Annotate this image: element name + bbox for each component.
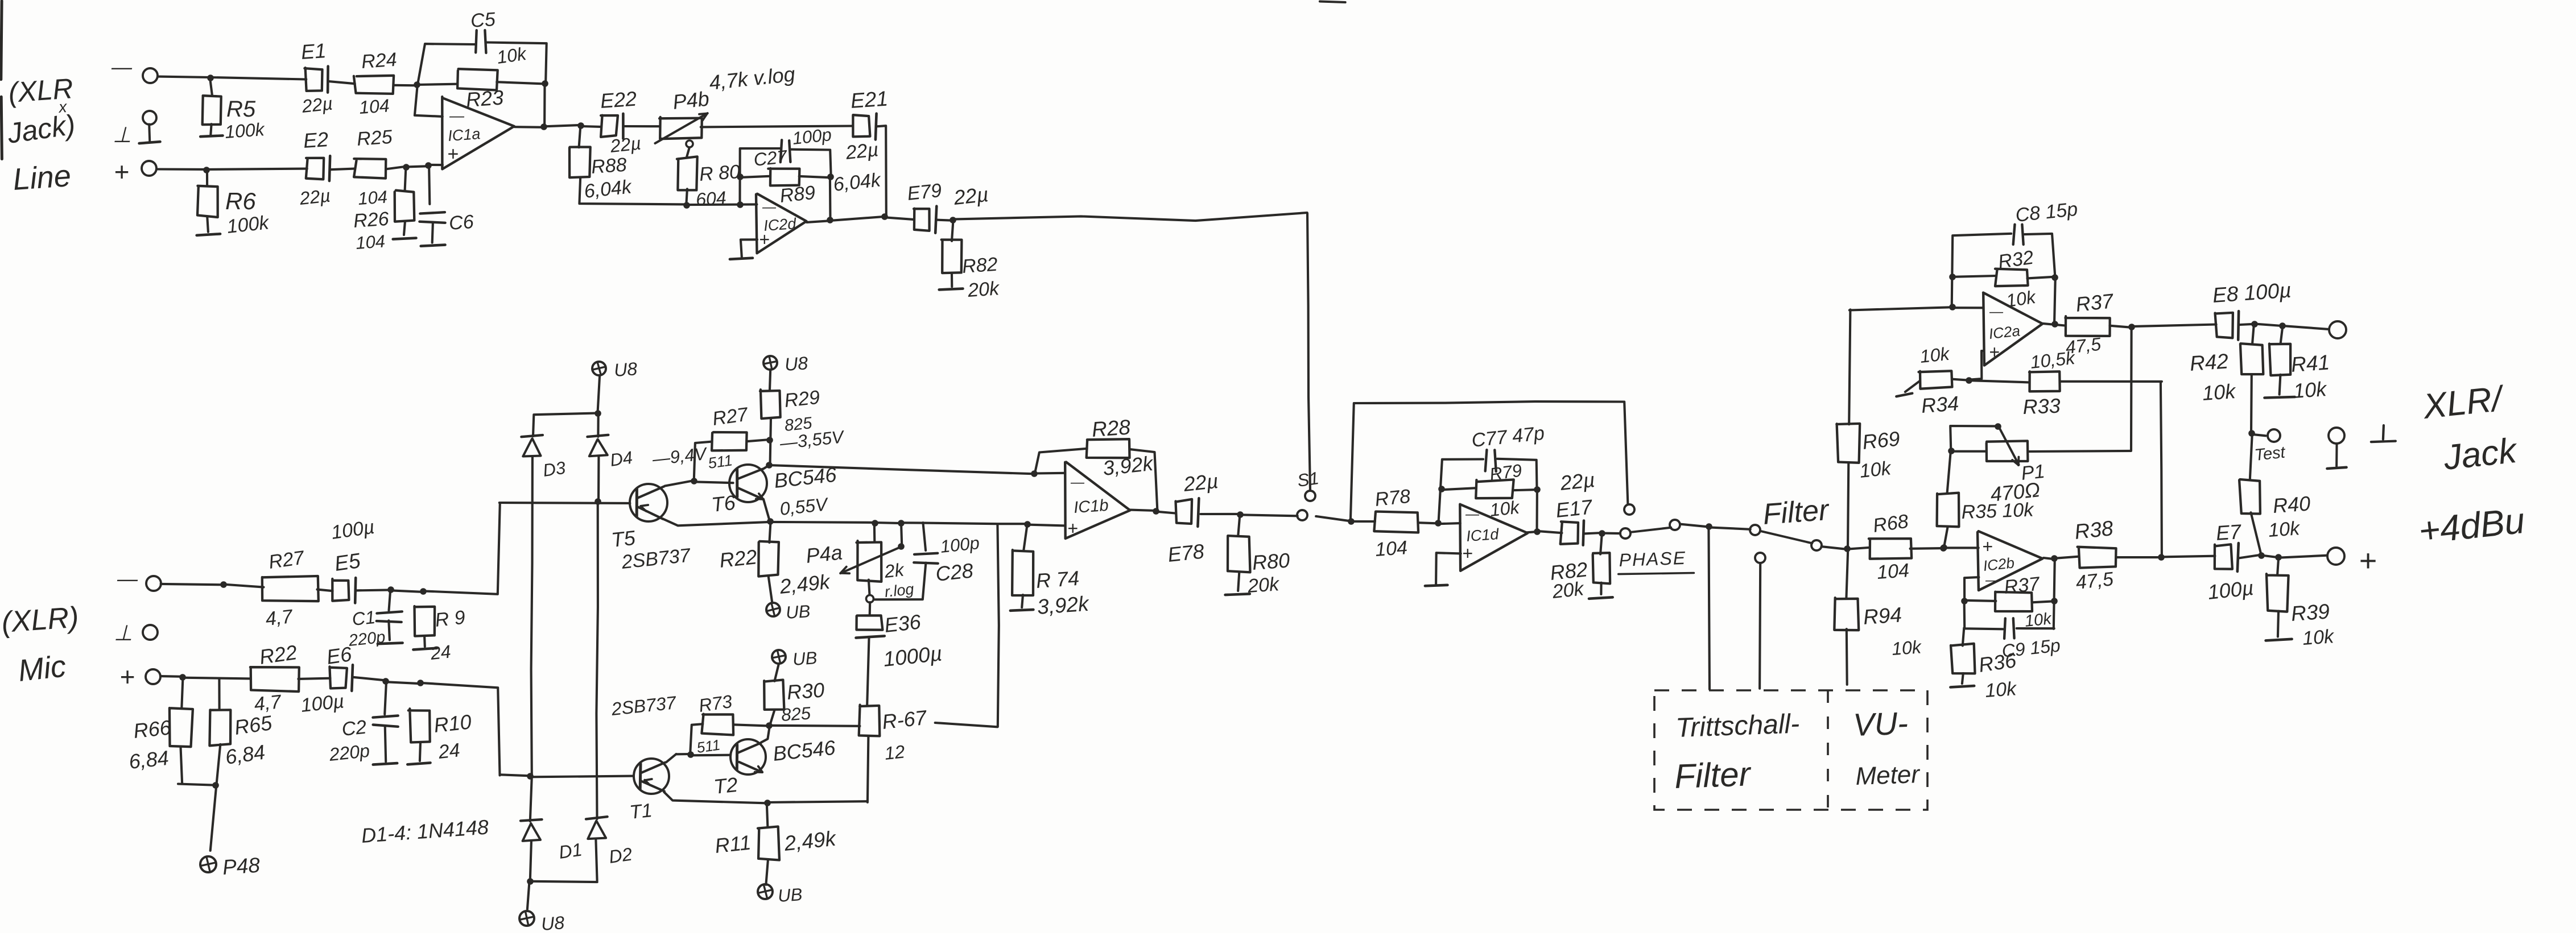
- transistor T1: [634, 759, 669, 794]
- capacitor E1: [304, 68, 322, 91]
- svg-text:E36: E36: [884, 610, 923, 637]
- diode D4: [587, 435, 608, 437]
- svg-text:+: +: [2359, 544, 2377, 578]
- transistor T6: [729, 465, 767, 502]
- resistor R82: [952, 220, 953, 241]
- resistor R36: [1963, 628, 1964, 645]
- resistor R22 emitter: [769, 522, 770, 542]
- transistor T2: [730, 739, 766, 775]
- resistor R28: [1031, 470, 1038, 477]
- svg-text:100µ: 100µ: [2207, 576, 2255, 604]
- op-amp IC2d: [756, 194, 807, 254]
- power UB bottom: [519, 911, 534, 926]
- svg-text:R42: R42: [2189, 349, 2230, 375]
- svg-text:+: +: [1462, 543, 1473, 564]
- resistor R34: [1919, 371, 1952, 388]
- svg-text:R5: R5: [226, 97, 256, 122]
- resistor R35: [1947, 452, 1951, 492]
- svg-text:R 80: R 80: [699, 161, 741, 185]
- svg-text:E21: E21: [850, 86, 889, 112]
- resistor R9: [414, 606, 435, 636]
- svg-text:IC1a: IC1a: [447, 125, 481, 144]
- svg-text:R 9: R 9: [434, 607, 467, 631]
- svg-text:3,92k: 3,92k: [1037, 592, 1091, 619]
- svg-text:—: —: [1070, 475, 1085, 490]
- svg-text:+: +: [119, 662, 135, 691]
- svg-text:IC2b: IC2b: [1982, 554, 2015, 574]
- svg-text:C27: C27: [753, 146, 789, 170]
- svg-text:UB: UB: [777, 884, 803, 906]
- svg-text:C5: C5: [470, 9, 496, 32]
- resistor R32: [1953, 276, 1996, 277]
- svg-text:R6: R6: [225, 188, 256, 214]
- svg-text:—: —: [449, 107, 465, 124]
- svg-text:100k: 100k: [226, 212, 271, 238]
- svg-text:+: +: [759, 229, 770, 250]
- resistor R11: [767, 803, 768, 828]
- svg-text:4,7: 4,7: [253, 691, 283, 715]
- resistor R40: [2239, 479, 2260, 514]
- svg-text:825: 825: [781, 703, 812, 725]
- svg-text:R39: R39: [2290, 599, 2331, 626]
- capacitor C27 and resistor R89: [740, 148, 781, 205]
- op-amp IC2a: [1983, 293, 2042, 366]
- svg-text:10k: 10k: [1859, 457, 1893, 482]
- svg-text:C6: C6: [448, 211, 474, 234]
- svg-text:R80: R80: [1252, 548, 1291, 574]
- wire IC1a output: [544, 125, 581, 126]
- diode D2: [586, 817, 608, 819]
- transistor T5: [630, 484, 667, 521]
- wire T5 base row: [499, 502, 630, 504]
- svg-text:R23: R23: [465, 85, 505, 111]
- capacitor E6: [329, 666, 347, 688]
- svg-text:R37: R37: [2003, 573, 2041, 598]
- svg-text:R 74: R 74: [1035, 566, 1080, 593]
- capacitor E79: [914, 209, 930, 231]
- op-amp IC2b: [1978, 531, 2042, 590]
- svg-text:R40: R40: [2272, 491, 2311, 517]
- svg-text:R26: R26: [353, 208, 390, 232]
- svg-text:22µ: 22µ: [300, 93, 333, 117]
- capacitor C2: [385, 681, 386, 714]
- svg-text:10k: 10k: [2268, 517, 2301, 541]
- svg-text:100µ: 100µ: [300, 690, 345, 717]
- svg-text:R35 10k: R35 10k: [1961, 499, 2035, 523]
- svg-text:R34: R34: [1921, 391, 1960, 417]
- svg-text:4,7: 4,7: [265, 606, 294, 630]
- svg-text:104: 104: [1374, 537, 1408, 561]
- svg-text:T5: T5: [610, 526, 637, 552]
- svg-text:100k: 100k: [224, 119, 266, 142]
- terminal Line inputs: [143, 68, 158, 83]
- svg-text:UB: UB: [785, 601, 811, 623]
- potentiometer P1: [2130, 326, 2133, 451]
- resistor R30 and power UB: [772, 650, 786, 664]
- svg-text:R29: R29: [783, 387, 821, 412]
- capacitor C8: [1952, 234, 2012, 308]
- resistor R68: [1847, 548, 1868, 549]
- svg-text:U8: U8: [540, 912, 565, 933]
- svg-text:R25: R25: [356, 126, 393, 150]
- terminal jack and ground: [2329, 428, 2344, 444]
- resistor R25: [354, 159, 386, 179]
- svg-text:C2: C2: [341, 717, 368, 740]
- svg-text:R24: R24: [361, 49, 398, 73]
- svg-text:Test: Test: [2253, 443, 2287, 465]
- wire Mic minus row: [161, 584, 224, 585]
- svg-text:—: —: [762, 200, 777, 215]
- wire R67 to emitter row: [935, 723, 998, 727]
- resistor R22: [250, 667, 299, 691]
- resistor R27 511: [712, 432, 747, 450]
- svg-text:604: 604: [695, 187, 727, 210]
- op-amp IC1a: [442, 97, 514, 169]
- op-amp IC1b: [1065, 462, 1130, 539]
- svg-text:511: 511: [696, 736, 721, 756]
- svg-text:+: +: [447, 143, 459, 165]
- svg-text:R69: R69: [1861, 426, 1901, 454]
- wire output: [1527, 532, 1537, 532]
- resistor R41: [2281, 325, 2283, 343]
- svg-text:R28: R28: [1091, 415, 1132, 441]
- svg-text:C1: C1: [351, 607, 376, 629]
- svg-text:R78: R78: [1374, 486, 1411, 511]
- resistor R82: [1600, 533, 1602, 554]
- resistor R29 and power UB: [763, 356, 777, 370]
- resistor R23: [416, 84, 457, 85]
- diode D1: [521, 819, 542, 821]
- svg-text:—: —: [1465, 507, 1480, 522]
- svg-text:+: +: [114, 157, 129, 187]
- svg-text:—: —: [1985, 573, 2000, 588]
- resistor R74: [1023, 524, 1027, 551]
- wire: [1316, 516, 1352, 521]
- svg-text:R88: R88: [591, 154, 628, 178]
- wire to T6 base: [694, 482, 733, 483]
- svg-text:r.log: r.log: [884, 581, 914, 600]
- wire Line minus row: [158, 77, 306, 80]
- capacitor E36: [869, 602, 872, 615]
- svg-text:104: 104: [357, 187, 388, 209]
- switch Filter: [1761, 531, 1813, 543]
- svg-text:E6: E6: [325, 642, 353, 669]
- svg-text:—: —: [111, 55, 133, 78]
- capacitor E22: [581, 125, 600, 128]
- ground: [741, 239, 757, 256]
- capacitor E2: [306, 158, 324, 180]
- svg-text:D1: D1: [558, 839, 584, 863]
- svg-text:R41: R41: [2290, 350, 2331, 376]
- svg-text:T2: T2: [713, 773, 739, 798]
- svg-text:E22: E22: [600, 87, 638, 113]
- svg-text:6,84: 6,84: [128, 746, 170, 773]
- terminal P48: [210, 786, 217, 851]
- wire phase feedback loop: [1351, 401, 1628, 521]
- svg-text:E2: E2: [303, 127, 329, 152]
- svg-text:E17: E17: [1555, 495, 1595, 522]
- resistor R88: [579, 126, 581, 148]
- svg-text:R10: R10: [433, 710, 473, 737]
- svg-text:IC2a: IC2a: [1988, 322, 2021, 342]
- svg-text:220p: 220p: [347, 628, 386, 650]
- resistor R33: [1969, 380, 2029, 382]
- wire: [2161, 383, 2162, 558]
- capacitor C1: [389, 590, 391, 610]
- svg-text:104: 104: [358, 95, 390, 118]
- resistor R39: [2277, 558, 2278, 575]
- svg-text:R82: R82: [961, 254, 998, 278]
- svg-text:+: +: [1989, 342, 2000, 362]
- svg-text:100p: 100p: [939, 533, 980, 557]
- svg-text:R30: R30: [786, 678, 825, 704]
- svg-text:P4b: P4b: [672, 86, 711, 113]
- svg-text:R89: R89: [779, 182, 816, 207]
- svg-text:R11: R11: [714, 831, 752, 858]
- svg-text:S1: S1: [1296, 468, 1320, 491]
- svg-text:U8: U8: [784, 353, 809, 375]
- resistor R67: [859, 705, 880, 736]
- svg-text:20k: 20k: [1551, 578, 1586, 603]
- svg-text:22µ: 22µ: [1559, 468, 1596, 495]
- svg-text:(XLR): (XLR): [1, 601, 80, 639]
- wire to IC1b: [769, 465, 1035, 474]
- power UB top: [592, 362, 606, 375]
- svg-text:Line: Line: [12, 159, 72, 197]
- svg-text:+: +: [1982, 536, 1993, 557]
- resistor R66 and resistor R65: [181, 677, 183, 709]
- switch PHASE: [1632, 528, 1671, 532]
- wire T6 emitter: [763, 499, 770, 520]
- svg-text:U8: U8: [613, 358, 638, 380]
- svg-text:PHASE: PHASE: [1619, 548, 1687, 570]
- capacitor C28: [923, 523, 926, 550]
- wire output: [807, 221, 829, 222]
- svg-text:Trittschall-: Trittschall-: [1675, 709, 1800, 743]
- svg-text:Meter: Meter: [1855, 760, 1921, 790]
- svg-text:D3: D3: [542, 458, 567, 481]
- svg-text:10k: 10k: [2202, 379, 2238, 405]
- svg-text:R38: R38: [2074, 516, 2115, 544]
- svg-text:104: 104: [355, 231, 386, 253]
- resistor R6: [206, 169, 208, 186]
- resistor R37: [2051, 321, 2058, 328]
- svg-text:104: 104: [1876, 560, 1910, 583]
- wire IC2a non-inverting input: [1970, 351, 1983, 380]
- svg-text:C28: C28: [935, 558, 975, 586]
- svg-text:R-67: R-67: [881, 706, 929, 734]
- svg-text:22µ: 22µ: [298, 185, 331, 209]
- svg-text:24: 24: [429, 641, 452, 664]
- svg-text:—: —: [117, 567, 138, 590]
- svg-text:IC1d: IC1d: [1465, 525, 1500, 545]
- resistor R10: [408, 709, 430, 742]
- wire to filter box: [1708, 527, 1710, 690]
- capacitor E21: [701, 126, 853, 127]
- resistor R26: [405, 167, 406, 190]
- svg-text:20k: 20k: [967, 278, 1001, 301]
- svg-text:VU-: VU-: [1852, 705, 1909, 743]
- capacitor E8: [2215, 313, 2233, 338]
- wire emitter row: [664, 792, 767, 804]
- svg-text:10k: 10k: [2293, 377, 2329, 403]
- resistor R42: [2252, 325, 2254, 344]
- wire T5 collector: [665, 481, 694, 486]
- Trittschall-Filter VU-Meter dashed box: [1654, 690, 1927, 810]
- svg-text:220p: 220p: [328, 740, 371, 765]
- svg-text:⊥: ⊥: [114, 622, 133, 645]
- resistor R78: [1351, 520, 1375, 523]
- svg-text:R37: R37: [2075, 289, 2116, 316]
- wire to T1 base: [500, 775, 530, 776]
- wire T6 collector: [763, 466, 769, 469]
- svg-text:P4a: P4a: [805, 540, 844, 567]
- svg-text:E5: E5: [333, 549, 362, 575]
- svg-text:R33: R33: [2022, 394, 2061, 419]
- svg-text:47,5: 47,5: [2075, 568, 2115, 594]
- svg-text:Filter: Filter: [1762, 494, 1831, 531]
- svg-text:Jack: Jack: [2441, 431, 2520, 478]
- svg-text:10k: 10k: [1984, 678, 2018, 702]
- svg-text:47,5: 47,5: [2065, 334, 2102, 358]
- svg-text:R94: R94: [1863, 603, 1903, 629]
- wire Line plus row: [157, 169, 307, 169]
- resistor R80 20k: [1238, 514, 1240, 535]
- resistor R5: [210, 77, 212, 96]
- resistor R37 and capacitor C9: [1964, 577, 1979, 602]
- svg-text:10k: 10k: [1919, 343, 1951, 367]
- svg-text:UB: UB: [792, 648, 818, 669]
- svg-text:10k: 10k: [496, 43, 529, 68]
- capacitor C6: [429, 165, 430, 204]
- resistor R80: [677, 156, 697, 190]
- potentiometer P4b: [659, 117, 702, 139]
- terminal Mic inputs: [146, 576, 161, 591]
- svg-text:12: 12: [884, 741, 906, 764]
- svg-text:22µ: 22µ: [844, 139, 880, 164]
- wire: [329, 81, 355, 84]
- svg-text:Mic: Mic: [16, 649, 68, 687]
- resistor R94: [1846, 549, 1848, 598]
- svg-text:E1: E1: [300, 39, 327, 64]
- potentiometer P4a: [873, 523, 876, 542]
- svg-text:R22: R22: [719, 545, 758, 572]
- svg-text:10k: 10k: [1891, 636, 1923, 659]
- svg-text:22µ: 22µ: [1182, 469, 1220, 496]
- op-amp IC1d: [1460, 504, 1528, 571]
- svg-text:E78: E78: [1167, 539, 1206, 566]
- wire bottom rail: [531, 881, 597, 882]
- svg-text:P48: P48: [222, 853, 261, 879]
- resistor R69: [1848, 462, 1848, 549]
- wire to S1: [952, 213, 1307, 221]
- switch S1: [1307, 213, 1310, 490]
- svg-text:24: 24: [437, 739, 461, 763]
- wire emitter row: [663, 519, 770, 525]
- svg-text:D4: D4: [609, 448, 634, 470]
- resistor R24: [354, 76, 394, 94]
- svg-text:T1: T1: [629, 800, 653, 823]
- svg-text:R66: R66: [133, 715, 173, 743]
- svg-text:+: +: [1067, 518, 1078, 539]
- svg-text:20k: 20k: [1246, 573, 1281, 597]
- svg-text:IC1b: IC1b: [1073, 496, 1109, 517]
- svg-text:511: 511: [707, 452, 734, 472]
- svg-text:100p: 100p: [791, 125, 832, 148]
- svg-text:⊥: ⊥: [113, 123, 131, 147]
- wire Mic plus row: [160, 675, 183, 678]
- resistor R37: [2044, 558, 2054, 559]
- svg-text:—: —: [1989, 304, 2004, 320]
- svg-text:Filter: Filter: [1674, 755, 1752, 796]
- svg-text:E7: E7: [2215, 520, 2243, 545]
- svg-text:D2: D2: [608, 844, 634, 867]
- wire T2 collector row: [770, 726, 860, 726]
- svg-text:10k: 10k: [1489, 497, 1521, 520]
- svg-text:E79: E79: [906, 180, 943, 205]
- svg-text:10k: 10k: [2302, 626, 2335, 649]
- scan edge mark: [1, 1, 2, 80]
- wire IC1a inverting input: [415, 84, 443, 117]
- svg-text:22µ: 22µ: [609, 133, 642, 157]
- svg-text:T6: T6: [711, 491, 737, 516]
- svg-text:22µ: 22µ: [952, 183, 990, 209]
- resistor R73: [690, 724, 703, 755]
- capacitor E78: [1155, 512, 1175, 513]
- svg-text:2k: 2k: [883, 559, 906, 582]
- diode D3: [521, 435, 543, 437]
- capacitor C5: [418, 44, 475, 84]
- capacitor C77 and resistor R79: [1438, 459, 1483, 524]
